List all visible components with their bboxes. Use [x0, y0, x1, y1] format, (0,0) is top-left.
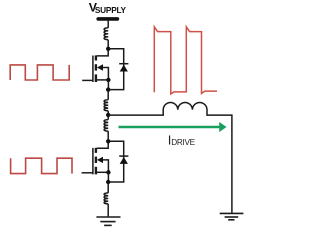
- svg-text:SUPPLY: SUPPLY: [95, 5, 127, 15]
- svg-text:DRIVE: DRIVE: [171, 138, 195, 147]
